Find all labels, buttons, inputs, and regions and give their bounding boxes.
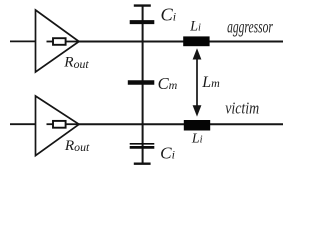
svg-text:victim: victim	[225, 99, 259, 118]
svg-text:Lm: Lm	[201, 74, 220, 91]
svg-text:aggressor: aggressor	[227, 17, 273, 37]
inductor Li (victim)	[184, 120, 210, 131]
wire U2 internal lead right	[66, 123, 79, 125]
terminal bar top	[134, 4, 151, 6]
wire victim input	[10, 123, 36, 125]
wire U1 internal lead right	[66, 41, 79, 43]
capacitor Cm mutual	[128, 80, 155, 84]
wire aggressor line	[79, 41, 283, 43]
capacitor Ci (victim) plate thin	[130, 143, 155, 145]
svg-text:Rout: Rout	[63, 54, 89, 71]
resistor Rout (aggressor)	[53, 38, 66, 45]
inductor Li (aggressor)	[183, 36, 209, 46]
terminal bar bottom	[134, 162, 151, 164]
capacitor Ci (aggressor) plates	[130, 20, 155, 24]
wire victim line	[79, 123, 283, 125]
wire U2 internal lead left	[47, 123, 55, 125]
capacitor Ci (victim) plate thick	[130, 146, 155, 149]
mutual inductance Lm arrow	[196, 55, 198, 110]
wire capacitor vertical rail	[142, 5, 144, 164]
wire aggressor input	[10, 40, 36, 42]
svg-text:Rout: Rout	[64, 137, 90, 154]
resistor Rout (victim)	[53, 121, 66, 128]
wire U1 internal lead left	[47, 41, 55, 43]
buffer U2 victim driver	[36, 96, 80, 156]
buffer U1 aggressor driver	[36, 10, 80, 72]
